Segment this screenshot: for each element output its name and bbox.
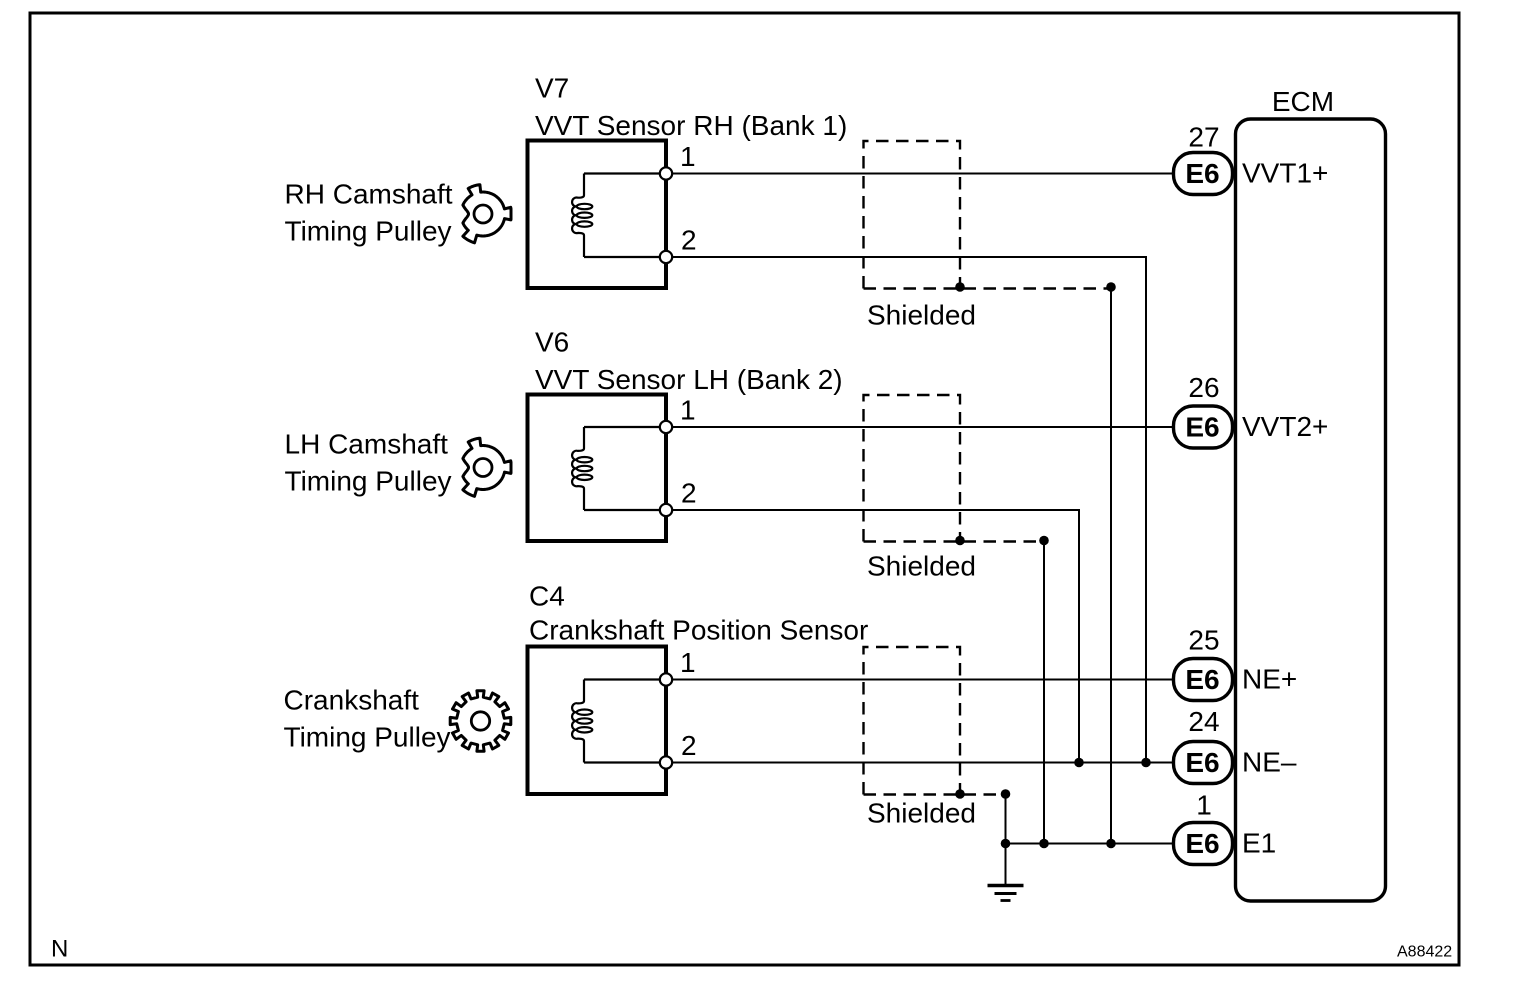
wire C4 pin1 to E6-25 NE+: [666, 679, 1174, 681]
pin 1 terminal V7: [660, 141, 696, 180]
wire V6 internal pin2: [584, 509, 660, 511]
svg-text:Timing Pulley: Timing Pulley: [285, 466, 452, 497]
svg-text:NE+: NE+: [1242, 664, 1297, 695]
ground symbol: [988, 886, 1024, 901]
wire V7 internal pin1: [584, 172, 660, 174]
junction dot node V6 pin2 on NE- net: [1074, 758, 1084, 768]
crankshaft timing pulley gear icon: [450, 691, 511, 752]
svg-text:1: 1: [680, 141, 696, 172]
pin 1 terminal V6: [660, 395, 696, 434]
wire V7 pin2 to NE- net: [666, 257, 1146, 763]
pin 1 terminal C4: [660, 647, 696, 686]
wire C4 internal pin1: [584, 678, 660, 680]
svg-text:24: 24: [1188, 706, 1219, 737]
pin 2 terminal V7: [660, 225, 697, 264]
svg-text:2: 2: [681, 225, 697, 256]
ECM connector terminal E6 pin 24 (NE–): [1174, 706, 1297, 784]
wire E1 net to E6-1: [1006, 843, 1175, 845]
junction dot V6 drain corner junction: [1039, 536, 1049, 546]
svg-text:Shielded: Shielded: [867, 551, 976, 582]
wire C4 pin2 to E6-24 NE-: [666, 762, 1174, 764]
svg-text:Crankshaft Position Sensor: Crankshaft Position Sensor: [529, 615, 868, 646]
svg-text:VVT Sensor LH (Bank 2): VVT Sensor LH (Bank 2): [535, 364, 843, 395]
svg-text:Shielded: Shielded: [867, 300, 976, 331]
svg-text:ECM: ECM: [1272, 86, 1334, 117]
junction dot node V6 shield on E1 net: [1039, 839, 1049, 849]
svg-text:25: 25: [1188, 625, 1219, 656]
ECM connector terminal E6 pin 27 (VVT1+): [1174, 122, 1329, 195]
wire C4 shield drain to ground: [1005, 794, 1007, 886]
svg-text:LH Camshaft: LH Camshaft: [285, 429, 449, 460]
junction dot node V7 shield on E1 net: [1106, 839, 1116, 849]
shield (dashed) around V6 wires: [864, 395, 1045, 582]
svg-text:NE–: NE–: [1242, 747, 1297, 778]
svg-text:E6: E6: [1185, 747, 1219, 778]
ECM connector terminal E6 pin 26 (VVT2+): [1174, 372, 1329, 448]
svg-text:E6: E6: [1185, 158, 1219, 189]
svg-text:C4: C4: [529, 581, 565, 612]
connector C4 Crankshaft Position Sensor box: [528, 581, 869, 795]
svg-text:Shielded: Shielded: [867, 798, 976, 829]
svg-text:1: 1: [680, 647, 696, 678]
svg-text:N: N: [51, 936, 68, 963]
svg-text:Timing Pulley: Timing Pulley: [285, 216, 452, 247]
wire V7 pin1 to E6-27 VVT1+: [666, 173, 1174, 175]
svg-text:27: 27: [1188, 122, 1219, 153]
svg-text:V7: V7: [535, 73, 569, 104]
svg-text:1: 1: [680, 395, 696, 426]
junction dot node V7 pin2 on NE- net: [1141, 758, 1151, 768]
junction dot V7 drain corner junction: [1106, 282, 1116, 292]
junction dot C4 shield junction: [955, 789, 965, 799]
wire V7 shield drain to E1 net: [1110, 287, 1112, 844]
ECM connector terminal E6 pin 25 (NE+): [1174, 625, 1298, 701]
ECM module box: [1236, 86, 1386, 901]
label LH Camshaft Timing Pulley: [285, 429, 452, 497]
coil winding V7: [572, 174, 584, 258]
svg-text:VVT1+: VVT1+: [1242, 158, 1328, 189]
LH camshaft timing pulley icon: [463, 438, 511, 496]
coil winding V6: [572, 427, 584, 510]
coil winding C4: [572, 680, 584, 763]
wire V6 internal pin1: [584, 426, 660, 428]
pin 2 terminal C4: [660, 730, 697, 769]
shield (dashed) around C4 wires: [864, 647, 1006, 829]
svg-text:E6: E6: [1185, 664, 1219, 695]
svg-text:Crankshaft: Crankshaft: [284, 685, 420, 716]
svg-text:VVT Sensor RH (Bank 1): VVT Sensor RH (Bank 1): [535, 110, 847, 141]
svg-text:Timing Pulley: Timing Pulley: [284, 722, 451, 753]
svg-text:E1: E1: [1242, 828, 1276, 859]
svg-text:RH Camshaft: RH Camshaft: [285, 179, 453, 210]
svg-text:26: 26: [1188, 372, 1219, 403]
svg-text:1: 1: [1196, 790, 1212, 821]
wire V7 internal pin2: [584, 256, 660, 258]
svg-text:V6: V6: [535, 327, 569, 358]
wire V6 pin1 to E6-26 VVT2+: [666, 426, 1174, 428]
svg-text:A88422: A88422: [1397, 944, 1452, 961]
shield (dashed) around V7 wires: [864, 141, 1112, 331]
pin 2 terminal V6: [660, 478, 697, 517]
junction dot node ground tap on E1 net: [1001, 839, 1011, 849]
connector V6 VVT Sensor LH (Bank 2) box: [528, 327, 843, 541]
svg-text:E6: E6: [1185, 828, 1219, 859]
svg-text:2: 2: [681, 730, 697, 761]
junction dot V7 shield junction: [955, 282, 965, 292]
junction dot C4 drain corner junction: [1001, 789, 1011, 799]
wire C4 internal pin2: [584, 761, 660, 763]
wire V6 shield drain to E1 net: [1043, 541, 1045, 844]
svg-text:VVT2+: VVT2+: [1242, 411, 1328, 442]
RH camshaft timing pulley icon: [463, 185, 511, 243]
svg-text:E6: E6: [1185, 412, 1219, 443]
label RH Camshaft Timing Pulley: [285, 179, 453, 247]
label Crankshaft Timing Pulley: [284, 685, 451, 753]
wire V6 pin2 to NE- net: [666, 510, 1079, 763]
junction dot V6 shield junction: [955, 536, 965, 546]
svg-text:2: 2: [681, 478, 697, 509]
connector V7 VVT Sensor RH (Bank 1) box: [528, 73, 848, 288]
ECM connector terminal E6 pin 1 (E1): [1174, 790, 1277, 865]
